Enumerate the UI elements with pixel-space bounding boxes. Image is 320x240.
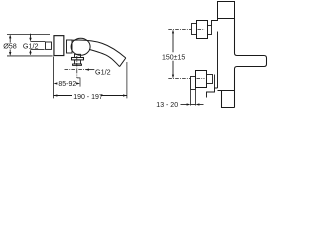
body block <box>54 36 64 56</box>
dim 13-20 extension right <box>195 90 197 106</box>
extension jog 85-92 right <box>77 78 80 87</box>
dim 13-20 line middle <box>191 104 196 106</box>
dim 13-20 tail right <box>199 104 204 106</box>
leader arrow <box>85 69 89 71</box>
bottom union centerline (dash-dot) <box>168 78 190 80</box>
dim 13-20 arrow left <box>187 103 191 105</box>
dim 13-20 arrow right <box>196 103 200 105</box>
extension line left (body corner down) <box>53 57 55 99</box>
body left edge <box>217 32 219 89</box>
dim 150+-15 arrow down <box>172 75 174 79</box>
dimension G1/2 arrow up <box>29 50 31 54</box>
bottom union pipe <box>207 75 213 84</box>
horizontal centerline of outlet (dash-dot) <box>65 69 85 71</box>
bottom union centerline inside <box>197 78 205 80</box>
dim 150+-15 line lower <box>172 61 174 77</box>
outlet bead <box>73 64 82 65</box>
top union wall pipe <box>192 24 197 35</box>
outlet neck under ball <box>75 54 81 57</box>
svg-text:85-92: 85-92 <box>58 81 76 88</box>
outlet flange <box>72 58 84 60</box>
cap top of body <box>218 2 235 19</box>
dimension D58 arrow up <box>9 35 11 39</box>
dimension D58 arrow down <box>9 52 11 56</box>
escutcheon edge bottom <box>214 75 216 89</box>
spout tip face <box>120 58 126 67</box>
dimension G1/2 arrow down <box>29 38 31 42</box>
dim 85-92 right arrow <box>76 82 80 84</box>
collar <box>67 40 73 53</box>
vertical centerline of outlet (dash-dot) <box>76 56 78 78</box>
dim 190-197 arrow left <box>54 94 58 96</box>
inlet stub G1/2 <box>46 42 52 49</box>
svg-text:G1/2: G1/2 <box>95 67 111 76</box>
body right edge with spout tab <box>235 19 267 108</box>
dim 190-197 line left <box>54 95 73 97</box>
dimension D58 extension line bottom <box>7 55 53 57</box>
bottom step left <box>207 88 218 98</box>
svg-text:Ø58: Ø58 <box>3 41 17 50</box>
svg-text:G1/2: G1/2 <box>23 42 39 51</box>
dimension G1/2 line lower <box>30 52 32 55</box>
bottom union nut <box>196 71 207 88</box>
top union nut <box>197 21 208 39</box>
notch top-left <box>212 19 218 26</box>
svg-text:13 - 20: 13 - 20 <box>156 102 178 109</box>
dimension G1/2 ext bottom <box>31 49 45 51</box>
dim 150+-15 arrow up <box>172 30 174 34</box>
leader G1/2 outlet <box>85 69 94 71</box>
dimension D58 line lower <box>9 50 11 54</box>
dimension G1/2 line upper <box>30 34 32 40</box>
outlet tube <box>75 60 81 64</box>
spout top curve <box>72 40 126 58</box>
dim 190-197 line right <box>101 95 127 97</box>
top union centerline (dash-dot) <box>168 29 191 31</box>
top union centerline inside <box>198 29 205 31</box>
spout bottom curve <box>89 49 120 66</box>
dim 13-20 extension left <box>190 90 192 106</box>
dim 150+-15 line upper <box>172 32 174 53</box>
extension line spout tip <box>126 62 128 98</box>
ball joint <box>71 38 90 55</box>
top union pipe <box>208 26 212 35</box>
dimension G1/2 ext top <box>31 41 46 43</box>
svg-text:190 - 197: 190 - 197 <box>73 94 103 101</box>
bottom union wall pipe <box>191 77 196 90</box>
dim 13-20 tail left <box>181 104 188 106</box>
dimension D58 extension line top <box>7 34 50 36</box>
svg-text:150±15: 150±15 <box>162 54 185 61</box>
dim 190-197 arrow right <box>123 94 127 96</box>
dimension D58 line upper <box>9 37 11 43</box>
dim 85-92 left arrow <box>54 82 58 84</box>
bottom outlet top edge <box>218 90 235 92</box>
bottom outlet <box>222 91 235 108</box>
